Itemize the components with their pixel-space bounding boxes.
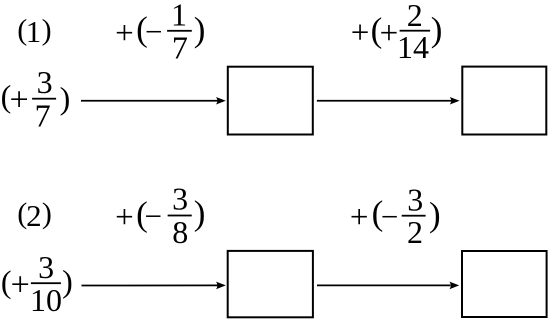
operand (+3/7)	[1, 64, 71, 133]
arrow 3	[82, 282, 226, 290]
svg-text:): )	[62, 263, 73, 299]
operand (+3/10)	[1, 249, 73, 318]
svg-text:8: 8	[172, 214, 188, 250]
svg-text:): )	[429, 195, 441, 234]
answer box 1	[228, 67, 313, 135]
svg-text:3: 3	[172, 181, 188, 217]
svg-text:): )	[42, 13, 52, 46]
svg-text:7: 7	[35, 97, 51, 133]
arrow 2	[317, 97, 460, 105]
svg-text:+: +	[115, 199, 134, 235]
arrow 4	[317, 282, 459, 290]
svg-text:3: 3	[37, 64, 53, 100]
svg-text:14: 14	[397, 29, 429, 65]
svg-text:−: −	[145, 199, 162, 234]
operation label +(-3/2)	[350, 181, 441, 250]
svg-text:2: 2	[407, 214, 423, 250]
answer box 2	[462, 67, 546, 135]
item label (2)	[17, 197, 52, 233]
svg-text:): )	[42, 197, 52, 230]
svg-text:): )	[60, 80, 71, 116]
svg-text:): )	[431, 10, 443, 49]
svg-text:−: −	[381, 199, 398, 234]
operation label +(+2/14)	[351, 0, 443, 65]
svg-text:3: 3	[407, 181, 423, 217]
svg-text:+: +	[115, 15, 134, 51]
svg-text:7: 7	[172, 30, 188, 66]
svg-text:+: +	[351, 15, 370, 51]
svg-text:+: +	[350, 199, 369, 235]
svg-text:2: 2	[26, 198, 42, 233]
answer box 3	[228, 251, 313, 317]
svg-text:−: −	[145, 14, 162, 49]
svg-text:1: 1	[171, 0, 187, 32]
svg-text:): )	[194, 10, 206, 49]
svg-text:3: 3	[38, 249, 54, 285]
svg-text:+: +	[380, 15, 399, 51]
svg-text:+: +	[9, 82, 28, 119]
svg-text:): )	[194, 193, 206, 232]
svg-text:10: 10	[30, 282, 62, 318]
answer box 4	[462, 251, 547, 317]
operation label +(-3/8)	[115, 181, 205, 250]
item label (1)	[17, 13, 51, 49]
svg-text:1: 1	[26, 14, 42, 49]
operation label +(-1/7)	[115, 0, 205, 66]
svg-text:+: +	[11, 267, 30, 304]
arrow 1	[81, 97, 226, 105]
